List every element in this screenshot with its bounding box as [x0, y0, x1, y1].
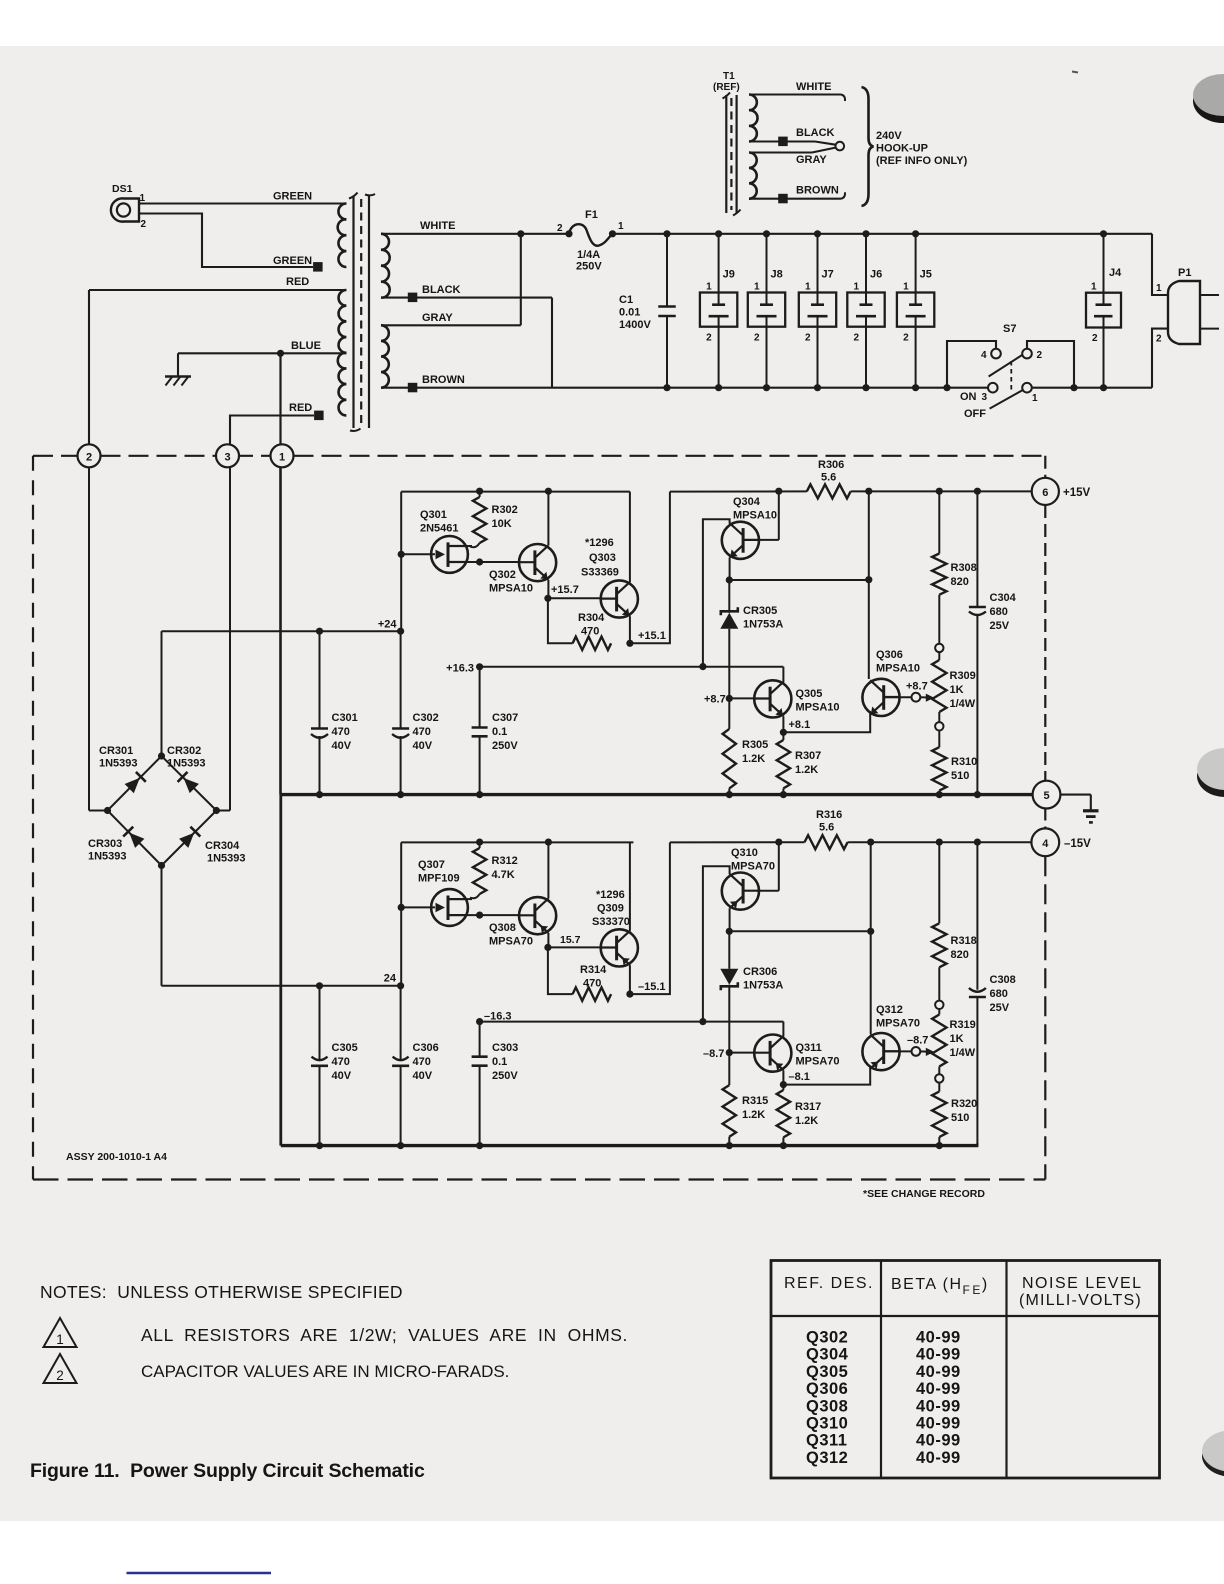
svg-text:*SEE CHANGE RECORD: *SEE CHANGE RECORD [863, 1188, 985, 1200]
wire Q302 collector [547, 492, 549, 546]
junction Q312 collector T [867, 928, 874, 935]
transformer primary winding (green) [338, 203, 347, 267]
wire Q310-Q312 link [729, 930, 870, 932]
transformer secondary winding (gray-brown) [381, 325, 389, 387]
svg-text:MPF109: MPF109 [418, 873, 460, 885]
svg-text:BLACK: BLACK [422, 284, 461, 296]
svg-text:J7: J7 [822, 269, 834, 281]
svg-text:MPSA10: MPSA10 [733, 510, 777, 522]
wire S7 contact 4 feed [943, 384, 950, 391]
transistor Q312 [862, 1033, 899, 1070]
transistor Q301 [431, 536, 468, 573]
wire Q307 gate [401, 906, 435, 908]
svg-text:R316: R316 [816, 809, 842, 821]
terminal R319 bottom [935, 1074, 943, 1082]
svg-text:4: 4 [981, 350, 987, 361]
svg-text:R305: R305 [742, 739, 768, 751]
svg-text:Q306: Q306 [806, 1380, 848, 1398]
junction J5 pin2 rail [912, 384, 919, 391]
resistor R316 [805, 835, 848, 849]
dashed border right (seg d) [1044, 856, 1046, 1179]
svg-text:25V: 25V [990, 620, 1010, 632]
wire GRAY riser [520, 234, 522, 325]
test point +8.7 (wiper) [912, 693, 921, 702]
wire RED (top) to node 2 [89, 289, 346, 291]
svg-text:1: 1 [279, 451, 285, 463]
dashed border top (seg b) [101, 455, 217, 457]
svg-text:C303: C303 [492, 1042, 518, 1054]
wire Q301 source [467, 561, 520, 563]
svg-text:Figure 11. Power Supply Circu: Figure 11. Power Supply Circuit Schemati… [30, 1460, 425, 1482]
svg-text:680: 680 [990, 606, 1008, 618]
svg-text:15.7: 15.7 [560, 934, 581, 946]
svg-text:820: 820 [951, 949, 969, 961]
terminal square GREEN [313, 262, 323, 272]
svg-text:1: 1 [754, 282, 760, 293]
junction R310 common [936, 791, 943, 798]
svg-text:24: 24 [384, 973, 397, 985]
junction Q306 collector rail [865, 488, 872, 495]
svg-text:2: 2 [1156, 334, 1162, 345]
junction C304 common [974, 791, 981, 798]
junction white-gray [517, 230, 524, 237]
junction C301 common [316, 791, 323, 798]
junction R308 rail [936, 488, 943, 495]
wire J7 pin1 [817, 234, 819, 293]
svg-text:–15V: –15V [1064, 838, 1091, 850]
svg-text:+16.3: +16.3 [446, 663, 474, 675]
chassis ground (BLUE) [165, 375, 191, 377]
junction Q304 base rail [775, 488, 782, 495]
transistor Q308 [519, 897, 556, 934]
svg-text:470: 470 [581, 626, 599, 638]
svg-text:1: 1 [1091, 282, 1097, 293]
transformer T1 (REF) core [725, 95, 727, 213]
bridge wire TR [162, 756, 217, 811]
svg-text:CR302: CR302 [167, 745, 201, 757]
svg-text:250V: 250V [492, 740, 518, 752]
svg-text:1N753A: 1N753A [743, 619, 783, 631]
transistor Q311 [754, 1035, 791, 1072]
wire +24 rail [162, 630, 401, 632]
svg-text:5: 5 [1043, 790, 1049, 802]
node 3 [216, 444, 239, 467]
test point -8.7 (wiper) [912, 1047, 921, 1056]
connector J4 [1086, 293, 1121, 328]
wire +8.7 to Q305 base [729, 697, 754, 699]
svg-text:2N5461: 2N5461 [420, 523, 459, 535]
dashed border top (seg d) [294, 455, 1046, 457]
wire node 2 to bridge [88, 467, 90, 810]
junction C305 top [316, 982, 323, 989]
node 1 [271, 444, 294, 467]
svg-text:1.2K: 1.2K [742, 753, 765, 765]
svg-text:CR303: CR303 [88, 838, 122, 850]
switch S7 contact 3 [988, 383, 998, 393]
svg-text:J9: J9 [723, 269, 735, 281]
wire BLACK [381, 297, 552, 299]
scan blob bottom right [1202, 1435, 1224, 1477]
wire Q311 collector [782, 1022, 784, 1037]
svg-text:2: 2 [1037, 350, 1043, 361]
svg-text:R315: R315 [742, 1095, 768, 1107]
svg-text:2: 2 [903, 333, 909, 344]
svg-text:1N5393: 1N5393 [88, 851, 127, 863]
svg-text:MPSA10: MPSA10 [876, 663, 920, 675]
wire upper rail right segment a [670, 490, 807, 492]
wire S7 contact 2 to rail [1027, 341, 1074, 388]
junction +8.1 [780, 729, 787, 736]
svg-text:2: 2 [56, 1368, 64, 1383]
table column line 1 [880, 1261, 882, 1479]
wiper arrow R319 [920, 1050, 929, 1052]
svg-text:2: 2 [1092, 333, 1098, 344]
junction Q310 emitter [726, 928, 733, 935]
wire Q309 emitter [629, 965, 631, 994]
wire WHITE secondary to fuse [381, 233, 569, 235]
svg-text:1N5393: 1N5393 [207, 853, 246, 865]
svg-text:Q312: Q312 [806, 1449, 848, 1467]
wire Q301 gate [401, 553, 435, 555]
table border [771, 1261, 1160, 1479]
wire upper AC rail [613, 233, 1153, 235]
wire Q303 collector [629, 492, 631, 582]
svg-text:CR305: CR305 [743, 605, 777, 617]
wire P1 pin 1 [1152, 234, 1169, 295]
wire Q305 collector [782, 667, 784, 682]
wire -16.3 rail [480, 1021, 784, 1023]
svg-text:40V: 40V [332, 1070, 352, 1082]
junction Q302 collector rail [545, 488, 552, 495]
svg-text:ASSY 200-1010-1 A4: ASSY 200-1010-1 A4 [66, 1151, 167, 1163]
svg-text:+8.7: +8.7 [704, 694, 726, 706]
svg-text:Q303: Q303 [589, 552, 616, 564]
wire Q308 emitter to R314 [548, 947, 573, 994]
svg-text:Q308: Q308 [489, 922, 516, 934]
svg-text:1: 1 [140, 193, 146, 204]
junction J7 pin1 rail [814, 230, 821, 237]
earth ground (node 5) [1083, 809, 1099, 812]
resistor R305 [728, 698, 730, 729]
wire 15.7 to Q309 base [548, 946, 601, 948]
svg-text:J4: J4 [1109, 267, 1122, 279]
svg-text:2: 2 [854, 333, 860, 344]
svg-text:1/4W: 1/4W [950, 1047, 976, 1059]
resistor R314 [573, 987, 612, 1000]
capacitor C305 [319, 986, 321, 1059]
svg-text:CR306: CR306 [743, 966, 777, 978]
svg-text:1N753A: 1N753A [743, 980, 783, 992]
wire Q304-Q306 link [729, 579, 869, 581]
svg-text:6: 6 [1042, 487, 1048, 499]
terminal square BLACK [408, 293, 418, 303]
svg-text:+8.7: +8.7 [906, 681, 928, 693]
bridge node top [158, 752, 165, 759]
svg-text:R318: R318 [951, 935, 977, 947]
svg-text:CAPACITOR VALUES ARE IN MICRO-: CAPACITOR VALUES ARE IN MICRO-FARADS. [141, 1362, 509, 1381]
junction R315 common [726, 1142, 733, 1149]
terminal square BROWN (T1) [778, 194, 788, 204]
wire Q310 emitter [729, 908, 731, 931]
wire +16.3 rail [480, 666, 784, 668]
wire Q306 collector riser [868, 492, 870, 679]
wire BROWN (T1) [749, 198, 841, 200]
wire J5 pin1 [915, 234, 917, 293]
svg-text:S33369: S33369 [581, 567, 619, 579]
zener CR306 [728, 931, 730, 969]
svg-text:MPSA70: MPSA70 [731, 861, 775, 873]
svg-text:470: 470 [413, 1056, 431, 1068]
wire +15.1 riser [630, 492, 670, 644]
wire P1 pin 2 [1152, 329, 1169, 388]
svg-text:1N5393: 1N5393 [167, 758, 206, 770]
svg-text:C308: C308 [990, 974, 1016, 986]
svg-text:1: 1 [706, 282, 712, 293]
flag note 1 triangle [44, 1318, 77, 1347]
svg-text:R306: R306 [818, 459, 844, 471]
wire node 1 to common rail [279, 467, 282, 794]
svg-text:5.6: 5.6 [821, 472, 836, 484]
common rail (node 5) [281, 793, 1033, 796]
wire Q303 emitter [629, 616, 631, 643]
junction 15.7 [544, 944, 551, 951]
terminal R309 bottom [935, 722, 943, 730]
connector J7 [799, 293, 836, 327]
transistor Q310 [722, 873, 759, 910]
svg-text:R314: R314 [580, 964, 607, 976]
fuse F1 [565, 230, 572, 237]
transistor Q304 [722, 522, 759, 559]
svg-text:(REF): (REF) [713, 82, 740, 93]
svg-text:820: 820 [951, 576, 969, 588]
svg-text:RED: RED [289, 402, 312, 414]
switch S7 lower arm [990, 390, 1024, 409]
svg-text:40-99: 40-99 [916, 1415, 961, 1433]
svg-text:40-99: 40-99 [916, 1432, 961, 1450]
resistor R315 [728, 1053, 730, 1086]
switch S7 contact 4 [991, 349, 1001, 359]
bridge node left [104, 807, 111, 814]
wire J7 pin2 [817, 327, 819, 388]
terminal square BROWN [408, 383, 418, 393]
svg-text:R308: R308 [951, 562, 977, 574]
svg-text:40-99: 40-99 [916, 1380, 961, 1398]
svg-text:S33370: S33370 [592, 916, 630, 928]
switch S7 contact 2 [1022, 349, 1032, 359]
junction -16.3 [476, 1018, 483, 1025]
node 2 [78, 444, 101, 467]
bridge node right [213, 807, 220, 814]
junction R320 common [936, 1142, 943, 1149]
svg-text:1/4W: 1/4W [950, 698, 976, 710]
junction +16.3 [476, 663, 483, 670]
svg-text:240V: 240V [876, 130, 902, 142]
svg-text:S7: S7 [1003, 323, 1016, 335]
junction +16.3 / Q304 collector [699, 663, 706, 670]
diode CR302 [184, 778, 199, 793]
svg-text:HOOK-UP: HOOK-UP [876, 143, 928, 155]
wire -15.1 riser [630, 842, 670, 994]
wire Q304 collector feed [703, 519, 730, 666]
wire Q310 collector feed [703, 866, 730, 1021]
svg-text:40V: 40V [413, 740, 433, 752]
wire Q308 collector [547, 842, 549, 898]
junction circle T1 black-gray [836, 142, 845, 151]
junction C301 top [316, 628, 323, 635]
wire J6 pin1 [865, 234, 867, 293]
scan blob top right [1193, 79, 1224, 123]
junction J4 pin1 rail [1100, 230, 1107, 237]
svg-text:(REF INFO ONLY): (REF INFO ONLY) [876, 155, 968, 167]
resistor R320 [938, 1083, 940, 1092]
svg-text:3: 3 [224, 451, 230, 463]
svg-text:R317: R317 [795, 1101, 821, 1113]
stray mark top [1072, 72, 1078, 73]
svg-text:Q305: Q305 [796, 688, 823, 700]
svg-text:1: 1 [1032, 393, 1038, 404]
svg-text:GRAY: GRAY [796, 154, 827, 166]
svg-text:T1: T1 [723, 71, 735, 82]
svg-text:Q310: Q310 [731, 847, 758, 859]
resistor R319 [938, 1009, 940, 1015]
svg-text:R310: R310 [951, 756, 977, 768]
resistor R302 [473, 497, 486, 543]
wire GRAY (T1) [749, 151, 812, 153]
svg-text:Q301: Q301 [420, 509, 447, 521]
svg-text:0.1: 0.1 [492, 1056, 507, 1068]
wire J9 pin2 [718, 327, 720, 388]
stray blue line [127, 1572, 272, 1575]
svg-text:3: 3 [982, 392, 988, 403]
svg-text:1.2K: 1.2K [795, 764, 818, 776]
svg-text:REF. DES.: REF. DES. [784, 1275, 874, 1292]
svg-text:NOTES: UNLESS OTHERWISE SPECI: NOTES: UNLESS OTHERWISE SPECIFIED [40, 1282, 403, 1302]
wire J6 pin2 [865, 327, 867, 388]
svg-text:1.2K: 1.2K [742, 1109, 765, 1121]
junction J8 pin2 rail [763, 384, 770, 391]
resistor R304 [573, 637, 612, 650]
svg-text:1400V: 1400V [619, 319, 651, 331]
connector J5 [897, 293, 934, 327]
junction -16.3 / Q310 collector [699, 1018, 706, 1025]
junction BLUE [277, 350, 284, 357]
junction C307 common [476, 791, 483, 798]
junction R302 top [476, 488, 483, 495]
terminal R319 top [935, 1001, 943, 1009]
junction -8.7 (left) [726, 1049, 733, 1056]
capacitor C302 [400, 631, 402, 728]
junction R317 common [780, 1142, 787, 1149]
transformer secondary winding (white-black) [381, 234, 390, 298]
wire Q304 emitter [729, 558, 731, 581]
switch S7 link [1010, 361, 1012, 393]
wire node 3 to bridge [229, 467, 231, 810]
wire +8.1 link [783, 711, 870, 732]
wire Q307 source [467, 914, 520, 916]
junction C306 common [397, 1142, 404, 1149]
stub P1 lower [1200, 328, 1219, 330]
wire Q304 base [757, 539, 779, 541]
svg-text:C1: C1 [619, 294, 633, 306]
wire node5 to ground [1060, 794, 1090, 796]
junction R305 common [726, 791, 733, 798]
transformer primary winding (red-blue-red) [338, 290, 347, 416]
wire Q312 base to wiper [884, 1050, 912, 1052]
junction Q304 emitter [726, 576, 733, 583]
junction +8.7 (left) [726, 695, 733, 702]
junction C303 common [476, 1142, 483, 1149]
dashed border left [32, 456, 34, 1180]
svg-text:1: 1 [903, 282, 909, 293]
wire upper rail left segment [401, 491, 630, 493]
junction +15.1 [626, 640, 633, 647]
wire GREEN DS1 pin1 to transformer [139, 202, 346, 204]
svg-text:GRAY: GRAY [422, 312, 453, 324]
junction -8.1 [780, 1081, 787, 1088]
connector P1 [1168, 281, 1200, 344]
wire BROWN / lower AC rail [381, 387, 988, 389]
junction J5 pin1 rail [912, 230, 919, 237]
junction -15.1 [626, 991, 633, 998]
scan blob middle right [1197, 755, 1224, 797]
svg-text:–16.3: –16.3 [484, 1011, 512, 1023]
wire AC rail contact1 to J4/P1 [1032, 387, 1152, 389]
svg-text:*1296: *1296 [585, 537, 614, 549]
svg-text:BROWN: BROWN [796, 185, 839, 197]
switch S7 contact 1 [1022, 383, 1032, 393]
bridge node bottom [158, 862, 165, 869]
svg-text:J8: J8 [771, 269, 783, 281]
junction Q312 collector rail [867, 839, 874, 846]
capacitor C303 [479, 1022, 481, 1057]
svg-text:R309: R309 [950, 670, 976, 682]
junction Q307 gate [398, 904, 405, 911]
diode CR303 [129, 833, 144, 848]
wire Q301 drain to R302 [467, 545, 473, 547]
svg-text:0.1: 0.1 [492, 726, 507, 738]
resistor R309 [938, 652, 940, 660]
svg-text:Q310: Q310 [806, 1415, 848, 1433]
svg-text:Q302: Q302 [489, 569, 516, 581]
svg-text:2: 2 [754, 333, 760, 344]
svg-text:+24: +24 [378, 619, 398, 631]
wire J8 pin1 [766, 234, 768, 293]
wire BLUE to ground [177, 353, 179, 376]
transistor Q306 [862, 679, 899, 716]
svg-text:+15.7: +15.7 [551, 584, 579, 596]
wire -8.7 to Q311 base [729, 1052, 754, 1054]
junction +24 / C302 [397, 628, 404, 635]
svg-text:Q304: Q304 [806, 1346, 849, 1364]
capacitor C308 [976, 842, 978, 989]
svg-text:J6: J6 [870, 269, 882, 281]
wire J4 pin1 [1103, 234, 1105, 293]
junction J9 pin2 rail [715, 384, 722, 391]
svg-text:(MILLI-VOLTS): (MILLI-VOLTS) [1019, 1292, 1142, 1309]
svg-text:OFF: OFF [964, 408, 986, 420]
wire Q306 base to wiper [884, 696, 912, 698]
svg-text:1: 1 [56, 1332, 64, 1347]
brace 240V hook-up [862, 87, 874, 206]
capacitor C301 [319, 631, 321, 728]
resistor R312 [473, 848, 486, 894]
svg-text:40-99: 40-99 [916, 1346, 961, 1364]
svg-text:2: 2 [557, 223, 563, 234]
capacitor C304 [976, 491, 978, 607]
svg-text:Q311: Q311 [796, 1042, 822, 1054]
svg-text:R319: R319 [950, 1019, 976, 1031]
svg-text:R307: R307 [795, 750, 821, 762]
